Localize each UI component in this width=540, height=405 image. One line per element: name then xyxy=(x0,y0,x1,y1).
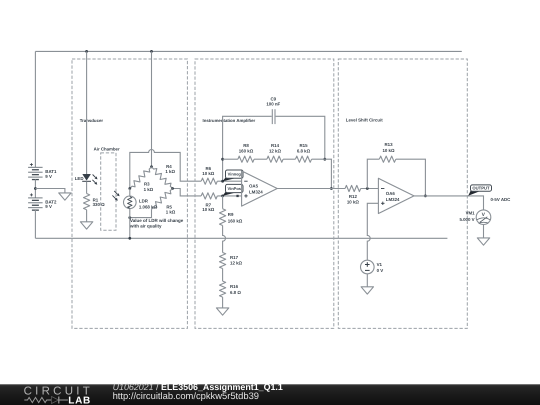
node bridge tap xyxy=(150,50,153,53)
node bridge right vertex xyxy=(171,187,174,190)
svg-text:V1: V1 xyxy=(377,262,383,267)
svg-text:Level Shift Circuit: Level Shift Circuit xyxy=(346,117,383,122)
ground (VM1) xyxy=(477,238,489,245)
resistor R6 xyxy=(201,178,217,184)
resistor R7 xyxy=(201,193,217,199)
wire battery midpoint xyxy=(34,179,36,198)
wire OA6 output xyxy=(414,196,484,210)
node VinPos xyxy=(221,195,224,198)
node LDR on rail xyxy=(128,237,131,240)
svg-text:OUTPUT: OUTPUT xyxy=(472,186,490,191)
wire to midpoint ground xyxy=(35,189,65,193)
svg-text:LM324: LM324 xyxy=(249,190,263,195)
svg-text:Air Chamber: Air Chamber xyxy=(94,146,120,151)
wire VM1 to ground xyxy=(483,225,485,238)
wire OA6 plus input to V1 (hop over rail) xyxy=(367,203,378,260)
wire R13 left xyxy=(367,159,379,188)
ground (V1) xyxy=(361,287,373,294)
footer bar xyxy=(0,384,540,405)
svg-text:VM1: VM1 xyxy=(466,210,476,215)
wire R8-R14 xyxy=(254,158,267,160)
flag Vinneg xyxy=(223,177,235,182)
wire OA5 output xyxy=(277,188,345,190)
resistor R3 xyxy=(130,167,152,189)
svg-text:160 kΩ: 160 kΩ xyxy=(228,218,243,223)
battery BAT1 xyxy=(28,163,42,179)
box Air Chamber xyxy=(101,153,116,230)
node Vinneg xyxy=(221,180,224,183)
node battery midpoint xyxy=(34,187,37,190)
flag OUTPUT xyxy=(468,189,480,195)
node LED branch tap xyxy=(85,50,88,53)
LDR body xyxy=(124,196,137,209)
wire feedback left xyxy=(223,158,238,160)
resistor R13 xyxy=(379,156,396,162)
wire top supply rail xyxy=(35,50,461,52)
svg-text:0-5V ADC: 0-5V ADC xyxy=(491,197,512,202)
box Level Shift Circuit xyxy=(338,59,467,328)
svg-text:1 kΩ: 1 kΩ xyxy=(166,210,176,215)
svg-text:VinPos: VinPos xyxy=(228,186,242,191)
wire battery top lead xyxy=(34,51,36,167)
op-amp OA5 xyxy=(242,171,278,206)
svg-text:R3: R3 xyxy=(144,182,150,187)
svg-text:LAB: LAB xyxy=(68,396,91,405)
node R13 junction xyxy=(366,187,369,190)
LDR light arrows xyxy=(114,191,117,194)
logo resistor symbol xyxy=(24,397,51,402)
wire VinPos to R9 xyxy=(222,196,224,209)
svg-text:5.000 V: 5.000 V xyxy=(459,217,474,222)
wire ground rail xyxy=(35,237,447,239)
svg-text:1 kΩ: 1 kΩ xyxy=(144,187,154,192)
wire R6 to Vinneg node xyxy=(217,180,241,182)
wire bridge bottom vertex to LDR column xyxy=(130,209,152,217)
node feedback left xyxy=(221,158,224,161)
svg-text:1.068 kΩ: 1.068 kΩ xyxy=(139,205,158,210)
svg-text:OA6: OA6 xyxy=(386,191,396,196)
wire R14-R15 xyxy=(283,158,295,160)
wire R1 to ground xyxy=(86,210,88,222)
voltmeter VM1 xyxy=(476,210,491,225)
svg-text:10 kΩ: 10 kΩ xyxy=(347,200,360,205)
svg-text:LM324: LM324 xyxy=(386,197,400,202)
wire R7 to VinPos node xyxy=(217,195,241,197)
wire left vertex to LDR xyxy=(129,189,131,197)
svg-text:10 kΩ: 10 kΩ xyxy=(382,148,395,153)
wire R9 to R17 (hop over rail) xyxy=(223,226,226,253)
resistor R9 xyxy=(220,209,226,226)
wire bridge left output route xyxy=(130,150,201,189)
pin OA5 non-inverting input xyxy=(236,195,238,197)
wire C9 right xyxy=(276,116,325,159)
svg-text:R15: R15 xyxy=(299,143,308,148)
resistor R16 xyxy=(220,281,226,297)
ground (R16) xyxy=(216,308,228,315)
svg-text:R8: R8 xyxy=(243,143,249,148)
LED D1 xyxy=(83,174,91,180)
svg-text:330 Ω: 330 Ω xyxy=(93,202,106,207)
wire C9 left xyxy=(223,116,272,181)
resistor R15 xyxy=(295,156,311,162)
wire LDR to rail xyxy=(129,209,131,239)
svg-text:9 V: 9 V xyxy=(45,204,52,209)
svg-text:with air quality: with air quality xyxy=(129,224,162,229)
node C9 to feedback row xyxy=(323,158,326,161)
ground (LED branch) xyxy=(80,222,92,229)
node feedback to output xyxy=(330,187,333,190)
svg-text:R12: R12 xyxy=(349,194,358,199)
CircuitLab logo wordmark xyxy=(24,386,93,405)
wire feedback right to output xyxy=(312,159,332,188)
svg-text:12 kΩ: 12 kΩ xyxy=(269,149,282,154)
svg-text:Value of LDR will change: Value of LDR will change xyxy=(130,218,184,223)
svg-text:LDR: LDR xyxy=(139,199,149,204)
resistor R5 xyxy=(152,189,173,210)
op-amp OA6 xyxy=(378,178,414,213)
svg-text:100 nF: 100 nF xyxy=(266,102,280,107)
svg-text:R14: R14 xyxy=(271,143,280,148)
node R13 to output xyxy=(424,195,427,198)
svg-text:9 V: 9 V xyxy=(45,174,52,179)
resistor R1 xyxy=(84,194,90,210)
svg-text:Instrumentation Amplifier: Instrumentation Amplifier xyxy=(203,118,256,123)
svg-text:Vinneg: Vinneg xyxy=(228,172,242,177)
svg-text:R17: R17 xyxy=(230,255,239,260)
resistor R4 xyxy=(152,167,173,189)
svg-text:LED: LED xyxy=(75,176,84,181)
svg-text:160 kΩ: 160 kΩ xyxy=(239,149,254,154)
svg-text:12 kΩ: 12 kΩ xyxy=(230,261,243,266)
svg-text:1 kΩ: 1 kΩ xyxy=(165,169,175,174)
wire R13 right xyxy=(396,159,426,196)
svg-text:http://circuitlab.com/cpkkw5r5: http://circuitlab.com/cpkkw5r5tdb39 xyxy=(113,390,259,401)
svg-text:R13: R13 xyxy=(384,142,393,147)
svg-text:6.8 Ω: 6.8 Ω xyxy=(230,290,241,295)
svg-text:R9: R9 xyxy=(228,212,234,217)
wire R16 to ground xyxy=(222,297,224,308)
wire LED anode xyxy=(86,51,88,174)
svg-text:10 kΩ: 10 kΩ xyxy=(202,207,215,212)
voltage source V1 xyxy=(361,260,375,274)
svg-text:OA5: OA5 xyxy=(249,184,259,189)
wire R17 to R16 xyxy=(222,269,224,282)
box Instrumentation Amplifier xyxy=(195,59,334,328)
svg-text:Transducer: Transducer xyxy=(80,118,104,123)
wire battery bottom to ground rail xyxy=(34,210,36,238)
svg-text:10 kΩ: 10 kΩ xyxy=(202,171,215,176)
ground (battery midpoint) xyxy=(59,193,71,200)
wire R12 to OA6 xyxy=(361,188,379,190)
node bridge bottom joins LDR column xyxy=(128,216,131,219)
node bridge left vertex xyxy=(128,187,131,190)
resistor R8 xyxy=(238,156,254,162)
flag VinPos xyxy=(223,191,235,196)
wire LED cathode to R1 xyxy=(86,181,88,193)
LED emission arrows xyxy=(93,175,96,178)
resistor R12 xyxy=(345,185,361,191)
wire bridge feed xyxy=(151,51,153,166)
battery BAT2 xyxy=(28,193,42,210)
resistor R17 xyxy=(220,253,226,269)
svg-text:R16: R16 xyxy=(230,284,239,289)
logo diode symbol xyxy=(52,397,59,404)
wire bridge right output route xyxy=(173,189,202,196)
capacitor C9 xyxy=(271,109,273,124)
node bridge top vertex xyxy=(150,165,153,168)
box Transducer xyxy=(72,59,187,328)
wire V1 to ground xyxy=(366,274,368,287)
svg-text:6.8 kΩ: 6.8 kΩ xyxy=(297,149,311,154)
svg-text:0 V: 0 V xyxy=(377,268,384,273)
resistor R14 xyxy=(267,156,283,162)
